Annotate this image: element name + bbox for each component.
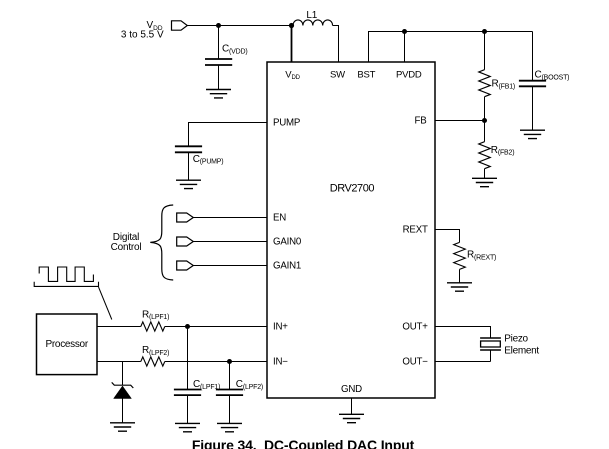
wire REXT pin bbox=[435, 230, 460, 243]
wire GAIN1 bbox=[193, 265, 267, 267]
square wave symbol bbox=[34, 267, 112, 320]
svg-text:GAIN0: GAIN0 bbox=[273, 237, 302, 248]
resistor R(LPF1) bbox=[141, 309, 169, 331]
wire PUMP pin bbox=[189, 123, 268, 147]
svg-text:3 to 5.5 V: 3 to 5.5 V bbox=[121, 30, 164, 41]
svg-text:EN: EN bbox=[273, 213, 286, 224]
capacitor C(LPF1) bbox=[174, 327, 220, 424]
svg-text:Figure 34. DC-Coupled DAC Inp: Figure 34. DC-Coupled DAC Input bbox=[192, 437, 415, 449]
ground under GND pin bbox=[339, 414, 364, 422]
svg-text:SW: SW bbox=[330, 70, 345, 81]
wire OUT- bbox=[435, 361, 491, 363]
wire GAIN0 bbox=[193, 241, 267, 243]
junction dot VDD pin / L1 bbox=[289, 23, 294, 28]
resistor R(REXT) bbox=[454, 242, 496, 282]
junction dot PVDD bbox=[402, 29, 407, 34]
wire VDD pin vertical bbox=[291, 26, 293, 63]
capacitor C(VDD) bbox=[205, 26, 247, 90]
capacitor C(LPF2) bbox=[216, 362, 263, 424]
svg-text:DRV2700: DRV2700 bbox=[330, 182, 375, 194]
brace for digital control bbox=[150, 205, 173, 280]
wire BST pin up and right bbox=[369, 32, 533, 63]
junction dot C(LPF2) tap bbox=[227, 359, 232, 364]
input terminal tag EN bbox=[177, 213, 194, 222]
svg-text:OUT+: OUT+ bbox=[402, 322, 428, 333]
svg-text:Control: Control bbox=[111, 242, 142, 253]
svg-text:GND: GND bbox=[341, 384, 362, 395]
junction dot C(LPF1) tap bbox=[185, 324, 190, 329]
ground under C(BOOST) bbox=[520, 130, 545, 138]
input terminal tag GAIN1 bbox=[177, 261, 194, 270]
IC U1 DRV2700 body bbox=[267, 62, 435, 398]
ground under C(VDD) bbox=[206, 90, 231, 98]
wire L1 to SW pin bbox=[333, 26, 339, 63]
ground under R(REXT) bbox=[447, 283, 472, 291]
svg-text:Processor: Processor bbox=[46, 339, 89, 350]
capacitor C(BOOST) bbox=[519, 32, 569, 131]
wire GND pin bbox=[351, 398, 353, 414]
wire PVDD pin vertical bbox=[404, 32, 406, 63]
ground under C(LPF2) bbox=[217, 423, 242, 431]
resistor R(FB1) bbox=[479, 32, 515, 121]
svg-text:Piezo: Piezo bbox=[504, 333, 528, 344]
processor box bbox=[37, 314, 98, 375]
input terminal tag GAIN0 bbox=[177, 237, 194, 246]
svg-text:GAIN1: GAIN1 bbox=[273, 261, 301, 272]
svg-text:PVDD: PVDD bbox=[396, 70, 422, 81]
svg-text:FB: FB bbox=[415, 116, 427, 127]
piezo element symbol bbox=[480, 338, 501, 362]
junction dot R(FB1) top bbox=[482, 29, 487, 34]
svg-text:L1: L1 bbox=[306, 10, 317, 21]
resistor R(LPF2) bbox=[141, 345, 169, 366]
inductor L1 bbox=[293, 20, 333, 26]
wire OUT+ to piezo bbox=[435, 327, 491, 339]
wire FB pin bbox=[435, 120, 485, 122]
svg-text:REXT: REXT bbox=[403, 225, 428, 236]
zener diode D1 branch bbox=[112, 362, 134, 423]
svg-text:PUMP: PUMP bbox=[273, 117, 300, 128]
junction dot C(VDD) tap bbox=[216, 23, 221, 28]
ground under zener bbox=[110, 423, 135, 431]
svg-text:IN+: IN+ bbox=[273, 322, 288, 333]
ground under C(PUMP) bbox=[176, 180, 201, 188]
input terminal tag VDD bbox=[172, 21, 188, 30]
svg-text:BST: BST bbox=[357, 70, 375, 81]
wire EN bbox=[193, 217, 267, 219]
wire VDD tag to L1 bbox=[187, 25, 293, 27]
ground under R(FB2) bbox=[472, 178, 497, 186]
ground under C(LPF1) bbox=[175, 423, 200, 431]
resistor R(FB2) bbox=[479, 121, 515, 179]
capacitor C(PUMP) bbox=[175, 146, 224, 180]
svg-text:OUT−: OUT− bbox=[402, 357, 428, 368]
svg-text:IN−: IN− bbox=[273, 357, 288, 368]
svg-text:Element: Element bbox=[504, 346, 539, 357]
wire processor to R(LPF2) bbox=[97, 361, 141, 363]
wire R(LPF1) to IN+ pin bbox=[165, 326, 267, 328]
junction dot FB node bbox=[482, 118, 487, 123]
wire processor to R(LPF1) bbox=[97, 326, 141, 328]
wire R(LPF2) to IN- pin bbox=[165, 361, 267, 363]
